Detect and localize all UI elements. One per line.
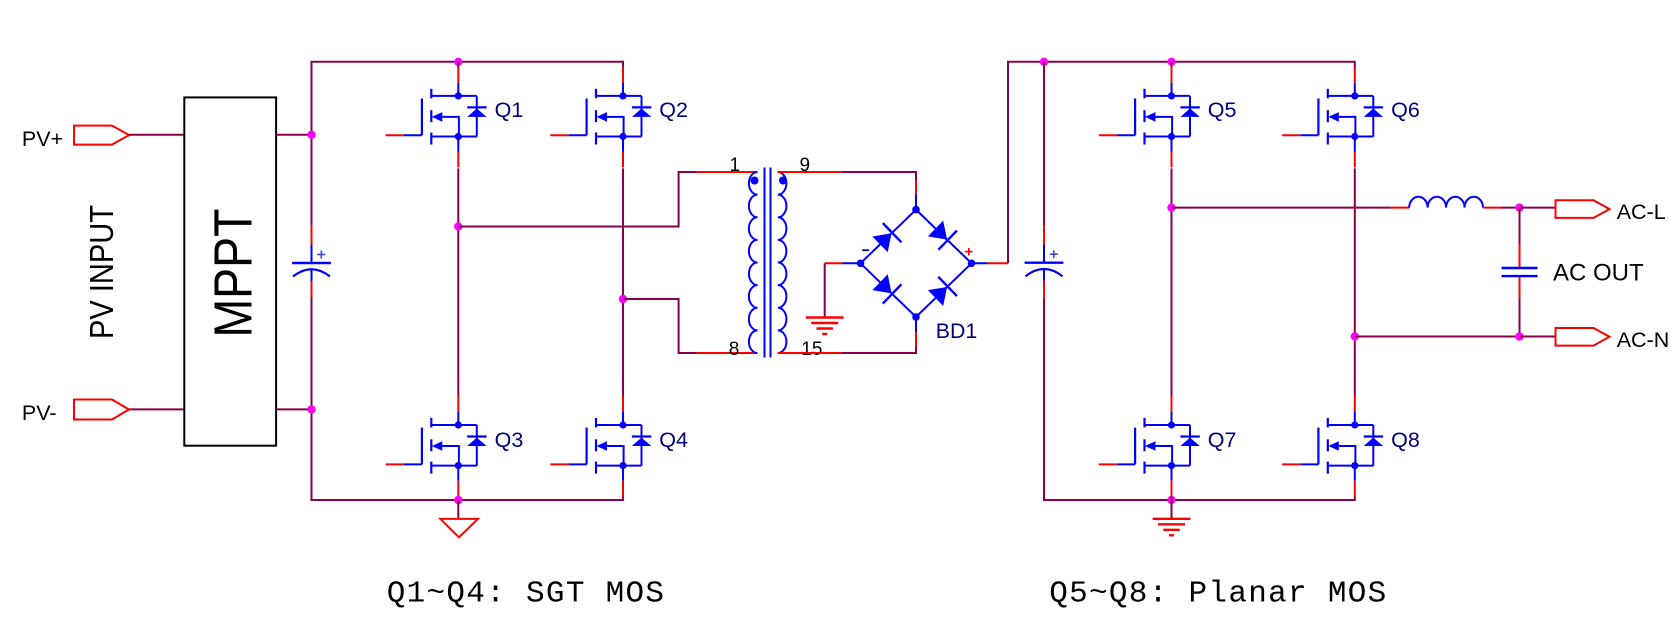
wire node Q6/Q8 to AC-N node — [1355, 336, 1520, 338]
wire AC-N node to flag — [1520, 336, 1556, 338]
wire MPPT out- to node B — [276, 408, 311, 410]
capacitor C2 — [1025, 245, 1064, 281]
wire node A down to capacitor C1 — [311, 135, 313, 226]
bridge rectifier BD1 body — [861, 210, 972, 317]
junction node Q1/Q3 midpoint — [454, 222, 462, 230]
capacitor C3 — [1502, 267, 1538, 269]
capacitor C1 red stub top — [311, 226, 313, 246]
wire bridge minus to ground — [824, 263, 826, 317]
capacitor C3 red stub bottom — [1519, 277, 1521, 298]
wire stub transformer pin 9 (red) — [778, 171, 842, 173]
svg-text:Q4: Q4 — [659, 428, 688, 452]
wire top bus down to capacitor C2 — [1043, 62, 1045, 225]
svg-text:1: 1 — [730, 155, 741, 176]
wire node Q2/Q4 to transformer pin 8 — [623, 299, 696, 353]
transformer T1 primary phase dot — [751, 177, 759, 185]
wire top rail stub to Q1 — [457, 62, 459, 68]
label bridge plus — [965, 251, 973, 253]
svg-text:Q5: Q5 — [1208, 98, 1237, 122]
svg-text:MPPT: MPPT — [204, 209, 263, 338]
wire Q6 source to Q8 drain — [1354, 168, 1356, 396]
transistor Q3 — [386, 396, 487, 497]
transistor Q6 — [1282, 67, 1383, 168]
ground (IEC) at bridge — [806, 318, 844, 335]
junction node AC-N — [1515, 332, 1523, 340]
junction bottom rail at Q7 source / ground — [1167, 496, 1175, 504]
transformer T1 primary winding — [749, 172, 758, 353]
wire AC-L node down to capacitor C3 — [1519, 208, 1521, 245]
junction top bus at Q5 drain — [1167, 58, 1175, 66]
svg-text:Q1: Q1 — [495, 98, 524, 122]
bridge corner dot left — [857, 260, 865, 268]
svg-text:Q2: Q2 — [659, 98, 688, 122]
svg-text:Q1~Q4: SGT MOS: Q1~Q4: SGT MOS — [387, 576, 666, 611]
connector flag PV- — [74, 400, 129, 420]
wire node B down to bottom rail and Q4 source — [312, 409, 624, 500]
junction top bus at capacitor C2 — [1040, 58, 1048, 66]
connector flag PV+ — [74, 126, 129, 145]
junction node Q2/Q4 midpoint — [619, 295, 627, 303]
wire stub transformer pin 15 (red) — [778, 352, 842, 354]
svg-text:PV+: PV+ — [22, 127, 63, 151]
svg-text:AC-N: AC-N — [1617, 328, 1670, 352]
diode BD1 bottom-right — [926, 277, 957, 308]
wire bridge plus to right top bus — [1008, 62, 1355, 263]
wire capacitor C2 to bottom rail — [1044, 299, 1355, 500]
svg-text:BD1: BD1 — [936, 319, 977, 343]
wire Q2 source to Q4 drain — [622, 168, 624, 396]
wire node Q1/Q3 to transformer pin 1 — [458, 172, 696, 227]
wire PV+ flag to MPPT — [129, 134, 184, 136]
transistor Q5 — [1099, 67, 1200, 168]
svg-text:Q6: Q6 — [1391, 98, 1420, 122]
bridge corner dot bottom — [912, 313, 920, 321]
transistor Q7 — [1099, 396, 1200, 497]
wire MPPT out+ to node A — [276, 134, 311, 136]
wire inductor left stub (red) — [1390, 207, 1409, 209]
capacitor C1 red stub bottom — [311, 281, 313, 297]
wire inductor right stub (red) — [1483, 207, 1501, 209]
svg-text:AC OUT: AC OUT — [1553, 260, 1644, 287]
ground (triangle) below bottom rail — [457, 500, 459, 519]
junction node Q5/Q7 midpoint — [1167, 203, 1175, 211]
svg-text:PV INPUT: PV INPUT — [83, 205, 120, 339]
wire inductor to AC-L node — [1501, 207, 1520, 209]
svg-text:Q7: Q7 — [1208, 428, 1237, 452]
wire stub transformer pin 8 (red) — [696, 352, 758, 354]
capacitor C2 red stub bottom — [1043, 281, 1045, 299]
inductor L1 — [1409, 197, 1483, 208]
wire Q5 source to Q7 drain — [1171, 168, 1173, 396]
wire AC-L node to flag — [1520, 207, 1556, 209]
bridge corner dot right — [968, 260, 976, 268]
wire stub transformer pin 1 (red) — [696, 171, 758, 173]
wire Q1 source to Q3 drain — [457, 168, 459, 396]
svg-text:AC-L: AC-L — [1617, 200, 1666, 224]
junction bottom rail at Q3 source / ground — [454, 496, 462, 504]
transformer T1 secondary winding — [778, 172, 787, 353]
wire bridge minus stub (red) — [825, 262, 843, 264]
junction node PV+ (MPPT/C1/top rail) — [307, 131, 315, 139]
wire capacitor C1 to node B — [311, 297, 313, 409]
transistor Q4 — [550, 396, 651, 497]
transistor Q2 — [550, 67, 651, 168]
wire transformer pin 9 to bridge top — [842, 172, 916, 180]
capacitor C3 red stub top — [1519, 244, 1521, 267]
capacitor C2 red stub top — [1043, 225, 1045, 245]
block U1 MPPT — [184, 97, 276, 445]
wire top bus stub to Q5 — [1171, 62, 1173, 68]
svg-text:8: 8 — [729, 339, 740, 360]
svg-text:Q8: Q8 — [1391, 428, 1420, 452]
svg-text:Q5~Q8: Planar MOS: Q5~Q8: Planar MOS — [1049, 576, 1387, 611]
label bridge minus — [862, 249, 869, 251]
wire bridge plus stub (red) — [988, 262, 1008, 264]
junction top rail at Q1 drain — [454, 58, 462, 66]
wire transformer pin 15 to bridge bottom — [842, 347, 916, 353]
svg-text:15: 15 — [801, 339, 822, 360]
transformer T1 secondary phase dot — [779, 177, 787, 185]
diode BD1 top-left — [871, 223, 902, 254]
wire node Q5/Q7 to inductor — [1172, 207, 1391, 209]
wire PV- flag to MPPT — [129, 408, 184, 410]
junction node PV- (MPPT/C1/bottom rail) — [307, 405, 315, 413]
diode BD1 bottom-left — [871, 273, 902, 304]
junction node AC-L — [1515, 203, 1523, 211]
ground (IEC) below right bottom rail — [1171, 500, 1173, 519]
wire bottom rail stub to Q4 — [622, 497, 624, 500]
transistor Q8 — [1282, 396, 1383, 497]
connector flag AC-N — [1556, 328, 1610, 346]
junction node Q6/Q8 midpoint — [1351, 332, 1359, 340]
svg-text:Q3: Q3 — [495, 428, 524, 452]
bridge corner dot top — [912, 206, 920, 214]
diode BD1 top-right — [926, 219, 957, 250]
transformer T1 core — [764, 168, 766, 358]
wire capacitor C3 to AC-N node — [1519, 298, 1521, 336]
connector flag AC-L — [1556, 200, 1610, 218]
wire left rail up to top bus and to Q2 drain — [312, 62, 624, 135]
transistor Q1 — [386, 67, 487, 168]
svg-text:PV-: PV- — [22, 401, 57, 425]
wire bottom rail stub to Q7 — [1171, 497, 1173, 500]
capacitor C1 — [292, 245, 331, 281]
